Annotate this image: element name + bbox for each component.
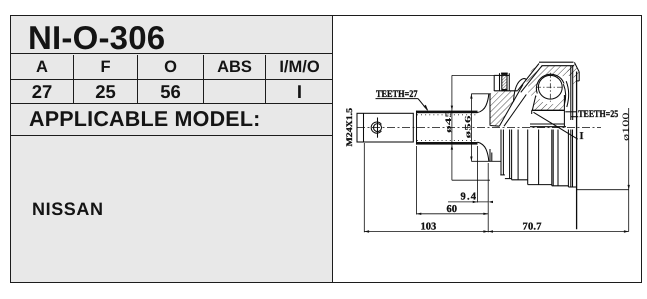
- spline left edge: [416, 111, 418, 145]
- dim ext line 477: [477, 146, 479, 203]
- applicable model row: [11, 104, 333, 136]
- dim ext line 416: [416, 146, 418, 215]
- cone outer: [518, 64, 539, 91]
- dia56 arrow top: [470, 94, 472, 99]
- svg-text:70.7: 70.7: [523, 222, 542, 233]
- outer race arc over ball: [536, 74, 564, 93]
- bottom flange mirror verts: [500, 130, 502, 175]
- race spline bore line: [530, 123, 564, 125]
- wedge bottom edge: [490, 125, 499, 128]
- flange left vert: [499, 73, 501, 90]
- neck fillet bottom: [478, 142, 489, 161]
- center hole crosshair: [377, 118, 379, 138]
- flange left face: [493, 75, 495, 91]
- cage white dome: [514, 79, 528, 102]
- TEETH=27 leader: [418, 99, 428, 111]
- dim 9.4 ticks: [473, 201, 493, 203]
- abs block: [502, 73, 507, 90]
- cage arc inner right: [563, 84, 565, 105]
- step surface: [494, 90, 517, 92]
- bell wall hatch wedge: [490, 66, 541, 126]
- bell right corner chamfer: [574, 62, 579, 71]
- dim 60 ticks: [417, 213, 489, 215]
- mouth inner cone line: [499, 85, 523, 127]
- cage arc outer right: [566, 81, 568, 107]
- svg-text:ø100: ø100: [621, 112, 631, 141]
- dim 103 line: [364, 231, 488, 233]
- cone inner chamfer line: [521, 66, 542, 92]
- TEETH=25 pointer: [571, 116, 578, 118]
- flange top line: [494, 74, 509, 76]
- I leader: [534, 112, 578, 139]
- dia100 bottom connector: [577, 189, 629, 191]
- mouth inner cone line 2: [504, 95, 526, 127]
- bottom band verts: [517, 130, 519, 180]
- connector y161: [471, 160, 501, 162]
- flange right face: [508, 73, 510, 90]
- svg-text:60: 60: [447, 204, 458, 215]
- dia45 arrow top: [451, 106, 453, 111]
- TEETH=27 underline: [376, 98, 419, 100]
- title NI-O-306: [11, 16, 333, 54]
- svg-text:TEETH=25: TEETH=25: [578, 109, 618, 120]
- bottom contour steps: [500, 174, 505, 176]
- thread relief line: [363, 113, 365, 142]
- dia100 dim line: [628, 108, 630, 232]
- center hole circle: [374, 124, 382, 132]
- spline tooth dots bottom: [417, 139, 477, 141]
- spline bottom band: [417, 142, 478, 145]
- dia100 arrow: [628, 185, 630, 190]
- thread body rect: [357, 113, 413, 142]
- inner race right face line: [563, 95, 565, 126]
- cage white band right of ball: [556, 76, 574, 110]
- bell face bottom: [489, 149, 491, 161]
- inner race hatch: [532, 96, 565, 110]
- bell top inner: [542, 65, 575, 67]
- lip vertical pair a: [570, 66, 572, 120]
- dim 70.7 ticks: [488, 230, 629, 232]
- header row A F O ABS I/M/O: [11, 55, 333, 80]
- svg-text:103: 103: [421, 222, 437, 233]
- svg-text:9.4: 9.4: [461, 192, 477, 203]
- dim 103 ticks: [364, 230, 488, 232]
- dia56 dimension line: [470, 94, 472, 162]
- race body divider: [532, 109, 565, 111]
- dim ext line 488: [487, 163, 489, 232]
- svg-text:ø56: ø56: [462, 116, 472, 139]
- TEETH=27 arrowhead: [424, 105, 429, 111]
- bell right face long: [576, 72, 578, 230]
- center hole outer arc: [371, 122, 381, 133]
- svg-text:I: I: [580, 131, 584, 142]
- connector y75: [452, 74, 494, 76]
- dia45 dimension line: [451, 75, 453, 180]
- svg-text:ø45: ø45: [443, 110, 453, 133]
- svg-text:M24X1.5: M24X1.5: [344, 108, 354, 147]
- spline tooth dots top: [417, 114, 477, 116]
- outer race hatch top band: [528, 66, 574, 96]
- value row 27 25 56 I: [11, 80, 333, 104]
- ball white ring: [537, 74, 564, 101]
- ball: [538, 75, 562, 99]
- dim ext line 364: [363, 143, 365, 232]
- centerline: [357, 127, 601, 129]
- ball center vertical dash: [549, 73, 551, 102]
- neck fillet top: [478, 94, 489, 113]
- dim 60 line: [417, 213, 489, 215]
- lip step line: [577, 80, 580, 82]
- right lip hatch: [566, 62, 579, 88]
- spline top band: [417, 111, 478, 114]
- cage dome outline: [514, 79, 527, 102]
- race body left: [531, 110, 533, 114]
- ball center horizontal dash: [536, 86, 565, 88]
- lip vertical pair b: [572, 66, 574, 120]
- flange chamfer line: [501, 72, 508, 74]
- connector y180: [452, 179, 490, 181]
- lip bottom edge: [565, 111, 576, 113]
- bell top outer: [539, 61, 574, 63]
- lip short line: [578, 72, 580, 82]
- bell face top: [489, 94, 491, 126]
- connector y93.5: [471, 93, 490, 95]
- dia56 arrow bottom: [470, 157, 472, 162]
- bell face inner bottom: [491, 153, 493, 162]
- inner race left face: [532, 96, 536, 111]
- dim 9.4 line: [448, 201, 488, 203]
- dim 70.7 line: [488, 231, 629, 233]
- NISSAN: [32, 199, 104, 220]
- dia45 arrow bottom: [451, 145, 453, 150]
- race spline root line: [530, 126, 566, 128]
